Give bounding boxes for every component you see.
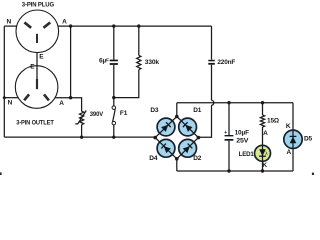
resistor 15ohm zigzag xyxy=(260,115,264,127)
scan artifact bottom-right corner xyxy=(312,173,314,175)
wire 220nF down to bridge east xyxy=(198,105,211,137)
junction dot fuse bottom xyxy=(112,135,115,138)
junction dot varistor bottom xyxy=(80,135,83,138)
diode symbol D4 xyxy=(161,144,171,154)
svg-text:D5: D5 xyxy=(304,136,313,143)
resistor 330k top wire xyxy=(138,26,140,55)
svg-text:K: K xyxy=(286,123,291,130)
svg-text:330k: 330k xyxy=(145,59,160,66)
fuse F1 top wire xyxy=(113,98,115,106)
varistor MOV 390V zigzag xyxy=(80,111,84,124)
capacitor 10uF plates xyxy=(225,135,234,136)
junction dot bridge west xyxy=(153,136,157,140)
svg-text:LED1: LED1 xyxy=(239,151,255,158)
junction dot outlet N xyxy=(3,96,6,99)
junction dot 6uF top xyxy=(112,24,115,27)
wire outlet A to varistor xyxy=(55,98,82,112)
wire plug N to left rail xyxy=(4,25,16,27)
wire E interconnect xyxy=(36,53,38,80)
bridge diagonal W-N xyxy=(155,117,177,138)
resistor 330k bottom wire xyxy=(114,70,139,98)
resistor 15ohm top wire xyxy=(262,103,264,115)
svg-text:K: K xyxy=(262,162,267,169)
capacitor 10uF bottom wire xyxy=(228,141,230,171)
junction dot 10uF top xyxy=(227,101,230,104)
svg-text:25V: 25V xyxy=(236,138,249,145)
outlet pin right xyxy=(43,94,50,102)
junction dot LED bottom xyxy=(261,169,264,172)
LED1 circle xyxy=(255,145,271,161)
plug pin earth xyxy=(36,34,38,43)
fuse F1 top terminal xyxy=(112,106,116,110)
wire bridge south to bottom rail xyxy=(176,159,178,171)
capacitor 10uF top wire xyxy=(228,103,230,135)
junction dot caps to fuse xyxy=(112,96,115,99)
svg-text:N: N xyxy=(7,18,12,25)
diode symbol D2 xyxy=(183,144,193,154)
plug pin left (N) xyxy=(24,21,32,28)
bridge diode D4 circle xyxy=(157,139,175,157)
junction dot 10uF bottom xyxy=(227,169,230,172)
svg-text:10µF: 10µF xyxy=(235,130,249,137)
svg-text:A: A xyxy=(59,100,64,107)
junction dot 15ohm top xyxy=(261,101,264,104)
junction dot bridge east xyxy=(197,136,201,140)
fuse F1 bottom wire xyxy=(113,125,115,137)
svg-text:D4: D4 xyxy=(149,155,158,162)
wire outlet N stub xyxy=(4,97,18,99)
svg-text:D1: D1 xyxy=(193,107,202,114)
junction dot 330k top xyxy=(137,24,140,27)
varistor strike line xyxy=(75,111,86,124)
LED1 through wire xyxy=(262,145,264,171)
wire right rail down to D5 xyxy=(292,103,294,171)
wire bottom rail xyxy=(177,170,293,172)
junction dot bridge south xyxy=(175,157,179,161)
fuse F1 bottom terminal xyxy=(112,121,116,125)
svg-text:220nF: 220nF xyxy=(217,59,235,66)
capacitor 220nF bottom wire with hop xyxy=(211,65,213,101)
bridge diode D3 circle xyxy=(157,118,175,136)
bridge diagonal N-E xyxy=(177,117,199,138)
svg-text:A: A xyxy=(62,19,67,26)
svg-text:A: A xyxy=(263,130,268,137)
3-pin outlet circle xyxy=(15,66,58,109)
D5 diode symbol xyxy=(290,136,297,143)
svg-text:A: A xyxy=(287,149,292,156)
wire left vertical N xyxy=(3,26,5,137)
junction dot plug A drop top xyxy=(69,24,72,27)
svg-text:15Ω: 15Ω xyxy=(267,117,279,124)
wire bottom N rail to bridge xyxy=(4,136,155,138)
svg-text:+: + xyxy=(224,130,227,136)
svg-text:3-PIN OUTLET: 3-PIN OUTLET xyxy=(16,119,54,126)
wire varistor bottom xyxy=(81,125,83,137)
D5 through wire xyxy=(292,130,294,148)
wire A drop plug to outlet xyxy=(70,26,72,98)
svg-text:D2: D2 xyxy=(193,155,202,162)
capacitor 220nF top wire xyxy=(211,26,213,60)
wire hop over + rail xyxy=(212,100,214,105)
resistor 15ohm bottom wire xyxy=(262,127,264,145)
wire + rail xyxy=(177,102,293,104)
diode symbol D1 xyxy=(183,122,193,132)
capacitor 6uF plates xyxy=(110,60,118,62)
svg-text:F1: F1 xyxy=(120,110,128,117)
svg-text:3-PIN PLUG: 3-PIN PLUG xyxy=(22,1,54,8)
outlet pin earth xyxy=(36,79,38,89)
svg-text:390V: 390V xyxy=(90,111,104,118)
wire top rail A xyxy=(58,25,212,27)
plug pin right (A) xyxy=(43,21,51,28)
bridge diagonal S-E xyxy=(177,138,199,159)
svg-text:D3: D3 xyxy=(150,107,159,114)
bridge diode D2 circle xyxy=(179,139,197,157)
capacitor 6uF bottom wire xyxy=(113,65,115,98)
resistor 330k zigzag xyxy=(137,55,141,69)
fuse F1 element xyxy=(113,109,116,121)
diode symbol D3 xyxy=(161,122,171,132)
capacitor 6uF top wire xyxy=(113,26,115,60)
3-pin plug P1 circle xyxy=(16,10,59,53)
junction dot outlet A drop xyxy=(69,96,72,99)
wire bridge north to + rail xyxy=(176,103,178,117)
scan artifact bottom-left corner xyxy=(0,172,2,175)
junction dot bridge north xyxy=(175,115,179,119)
LED1 diode symbol xyxy=(259,149,266,156)
bridge diagonal W-S xyxy=(155,138,177,159)
bridge diode D1 circle xyxy=(179,118,197,136)
capacitor 220nF plates xyxy=(208,60,215,62)
svg-text:N: N xyxy=(8,100,13,107)
diode D5 circle xyxy=(284,130,302,148)
outlet pin left xyxy=(23,94,30,102)
